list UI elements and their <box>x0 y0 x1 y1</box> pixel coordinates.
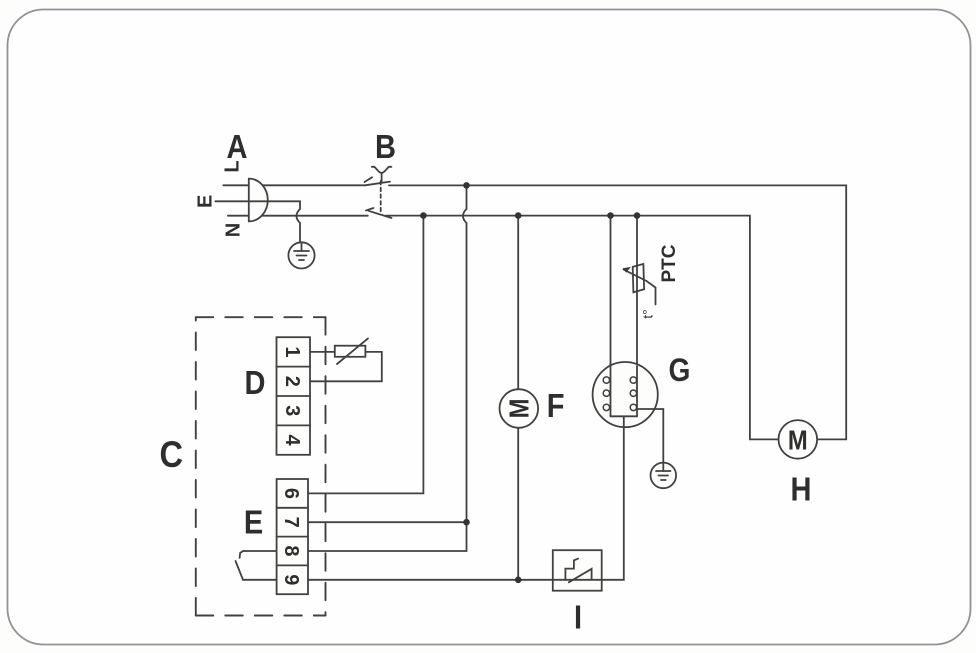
svg-text:8: 8 <box>280 545 302 556</box>
svg-text:M: M <box>788 423 808 455</box>
svg-text:A: A <box>227 128 248 165</box>
svg-text:C: C <box>160 434 184 475</box>
svg-text:3: 3 <box>281 405 303 416</box>
svg-text:t°: t° <box>640 309 656 319</box>
svg-text:L: L <box>222 160 244 172</box>
svg-text:F: F <box>547 387 565 424</box>
svg-text:G: G <box>669 353 691 388</box>
svg-text:7: 7 <box>280 517 302 528</box>
svg-text:9: 9 <box>280 574 302 585</box>
svg-text:2: 2 <box>281 376 303 387</box>
svg-text:D: D <box>245 364 266 401</box>
svg-text:1: 1 <box>281 346 303 357</box>
svg-text:B: B <box>375 128 396 165</box>
svg-text:4: 4 <box>281 435 303 447</box>
svg-text:M: M <box>503 399 535 419</box>
svg-text:H: H <box>791 471 812 508</box>
svg-text:N: N <box>223 223 245 237</box>
svg-text:E: E <box>244 504 263 541</box>
svg-text:6: 6 <box>280 488 302 499</box>
svg-text:PTC: PTC <box>659 244 680 282</box>
svg-text:E: E <box>195 195 217 208</box>
svg-text:I: I <box>574 599 582 636</box>
